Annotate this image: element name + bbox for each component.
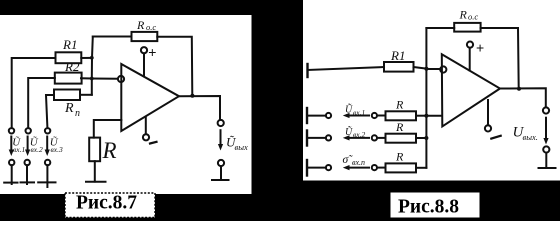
svg-text:n: n xyxy=(75,108,80,119)
node row 1 bus junction xyxy=(424,114,428,118)
wire - stem right xyxy=(487,100,489,125)
wire R1 input xyxy=(308,67,385,70)
row 3 terminal circle left xyxy=(326,165,331,170)
caption box fig 8.8 xyxy=(390,192,480,218)
row 3 wire to R xyxy=(377,167,386,169)
scan artifact: top black bar xyxy=(0,0,303,15)
wire Rn output to summing bus xyxy=(80,94,92,96)
svg-text:R: R xyxy=(459,8,468,22)
svg-text:вх.n: вх.n xyxy=(352,158,365,167)
resistor Roc right xyxy=(454,23,480,32)
resistor Roc xyxy=(132,32,158,41)
arrow output voltage right xyxy=(545,118,547,140)
wire input column 1 to R1 xyxy=(12,58,56,128)
wire to inverting bubble xyxy=(426,68,440,70)
resistor R1 xyxy=(56,52,82,63)
wire feedback bus vertical xyxy=(425,28,427,168)
row 2 arrow input voltage xyxy=(347,137,369,139)
row 3: terminal tick xyxy=(306,160,308,176)
svg-text:вх.1: вх.1 xyxy=(353,108,365,117)
svg-text:+: + xyxy=(148,44,156,60)
node feedback-output junction xyxy=(190,94,194,98)
wire input column 3 to Rn xyxy=(46,95,54,128)
label - xyxy=(150,142,157,144)
power terminal + circle xyxy=(141,47,147,53)
node output junction xyxy=(517,87,521,91)
row 2 wire tick to circle xyxy=(307,137,326,139)
node inverting junction xyxy=(424,67,428,71)
power terminal + circle right xyxy=(467,42,473,48)
wire output ground stem xyxy=(220,166,222,179)
resistor R row 3 xyxy=(386,163,417,172)
row 3 terminal circle right xyxy=(372,165,377,170)
op-amp U1 triangle xyxy=(121,64,179,131)
wire R to ground xyxy=(94,161,96,181)
row 2: terminal tick xyxy=(306,131,308,146)
svg-text:R2: R2 xyxy=(64,59,80,74)
terminal tick R1 input xyxy=(306,64,308,77)
svg-text:вх.3: вх.3 xyxy=(51,145,63,154)
row 1 arrow input voltage xyxy=(347,115,369,117)
ground input 2 xyxy=(21,181,35,183)
label - right xyxy=(491,136,500,139)
wire output xyxy=(179,96,220,120)
input terminal circle 3 lower xyxy=(45,160,50,165)
wire bus to non-inverting input xyxy=(426,115,441,117)
arrow input voltage 3 xyxy=(46,137,48,152)
wire + terminal stem xyxy=(143,53,145,76)
wire non-inverting input to R xyxy=(94,120,122,138)
wire summing bus xyxy=(92,37,93,95)
resistor R row 2 xyxy=(386,134,417,143)
node R1-bus junction xyxy=(90,56,94,60)
arrow input voltage 1 xyxy=(10,137,12,152)
ground output xyxy=(212,179,229,181)
wire - terminal stem xyxy=(145,118,147,135)
wire + stem right xyxy=(469,48,471,71)
row 1 terminal circle right xyxy=(372,113,377,118)
resistor R xyxy=(89,138,100,162)
svg-text:+: + xyxy=(476,40,484,56)
resistor R2 xyxy=(55,73,82,84)
resistor R1 right xyxy=(384,62,414,72)
row 3 wire tick to circle xyxy=(307,167,326,169)
input terminal circle 1 lower xyxy=(9,160,14,165)
wire ground stem 2 xyxy=(26,165,28,184)
wire ground stem output right xyxy=(545,153,547,168)
resistor R row 1 xyxy=(386,111,417,120)
row 3 wire R to bus xyxy=(416,167,426,169)
svg-text:вых: вых xyxy=(235,142,248,152)
svg-text:R: R xyxy=(136,18,145,32)
svg-text:o.c: o.c xyxy=(146,22,156,32)
wire bus to inverting input xyxy=(92,78,118,80)
power terminal - circle xyxy=(143,134,149,140)
wire Roc left xyxy=(93,36,132,38)
scan artifact: central black band xyxy=(252,0,304,221)
input terminal circle 1 upper xyxy=(9,128,14,133)
svg-text:R: R xyxy=(64,101,74,116)
ground under R xyxy=(86,181,106,183)
row 1 wire to R xyxy=(377,115,386,117)
wire ground stem 1 xyxy=(11,165,13,184)
row 2 wire R to bus xyxy=(416,137,426,139)
wire R1 to inverting node xyxy=(414,67,427,69)
wire R2 output to summing bus xyxy=(81,77,92,79)
row 1 wire R to bus xyxy=(416,115,426,117)
output terminal circle lower right xyxy=(543,146,549,152)
svg-text:R1: R1 xyxy=(390,48,405,63)
input terminal circle 2 upper xyxy=(26,128,31,133)
svg-text:Рис.8.8: Рис.8.8 xyxy=(398,197,459,218)
svg-text:R: R xyxy=(395,150,404,164)
row 2 terminal circle left xyxy=(326,135,331,140)
input terminal circle 3 upper xyxy=(45,128,50,133)
output terminal circle lower xyxy=(218,160,224,166)
row 1: terminal tick xyxy=(306,108,308,123)
svg-text:Ũ: Ũ xyxy=(345,126,353,138)
wire Roc left right-circuit xyxy=(426,27,454,29)
svg-text:вх.2: вх.2 xyxy=(353,130,365,139)
svg-text:Ũ: Ũ xyxy=(345,104,353,116)
input terminal circle 2 lower xyxy=(25,160,30,165)
wire ground stem 3 xyxy=(46,165,48,187)
svg-text:R: R xyxy=(395,120,404,134)
wire output right-circuit xyxy=(500,88,546,107)
ground input 1 xyxy=(4,182,17,184)
node row 2 bus junction xyxy=(424,136,428,140)
row 1 terminal circle left xyxy=(326,113,331,118)
op-amp U2 triangle xyxy=(442,54,500,126)
ground output right xyxy=(539,167,556,169)
output terminal circle upper xyxy=(218,120,224,126)
row 2 terminal circle right xyxy=(372,135,377,140)
ground input 3 xyxy=(38,181,55,183)
inverting input bubble right xyxy=(440,66,446,72)
arrow input voltage 2 xyxy=(27,137,29,152)
row 2 wire to R xyxy=(377,137,386,139)
caption box fig 8.7 xyxy=(65,193,155,218)
arrow output voltage xyxy=(220,130,222,145)
svg-text:вых.: вых. xyxy=(523,132,538,142)
svg-text:R: R xyxy=(102,138,117,163)
row 1 wire tick to circle xyxy=(307,115,326,117)
wire input column 2 to R2 xyxy=(28,78,55,128)
row 3 arrow input voltage xyxy=(347,167,369,169)
wire Roc right to output xyxy=(481,28,519,88)
output terminal circle upper right xyxy=(543,107,549,113)
power terminal - circle right xyxy=(485,125,491,131)
scan artifact: right bottom black strip xyxy=(303,181,560,222)
svg-text:вх.1: вх.1 xyxy=(13,145,25,154)
svg-text:R: R xyxy=(395,98,404,112)
svg-text:o.c: o.c xyxy=(468,12,478,22)
resistor Rn xyxy=(54,90,80,101)
svg-text:вх.2: вх.2 xyxy=(31,145,43,154)
wire R1 output to summing bus xyxy=(81,57,92,59)
svg-text:R1: R1 xyxy=(62,37,77,52)
svg-text:Рис.8.7: Рис.8.7 xyxy=(76,193,137,214)
node R2-bus junction xyxy=(90,77,94,81)
wire Roc right to output node xyxy=(157,37,192,96)
inverting input bubble xyxy=(118,76,124,82)
scan artifact: left bottom black strip xyxy=(0,194,252,221)
